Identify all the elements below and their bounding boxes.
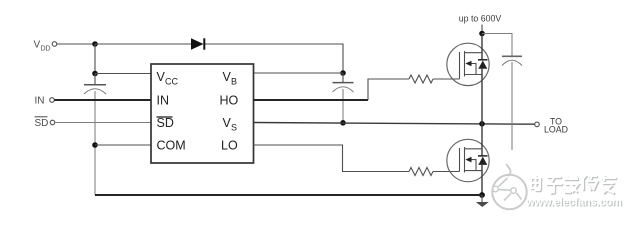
svg-text:LOAD: LOAD xyxy=(544,125,568,135)
resistor R2 low-side gate xyxy=(409,168,433,176)
wire HO pin to elbow xyxy=(254,99,369,101)
pin label VCC xyxy=(157,70,179,87)
wire COM junction to COM pin xyxy=(95,144,151,146)
pin label VS xyxy=(223,116,238,133)
watermark chinese text 电子发烧友 xyxy=(530,175,617,194)
svg-text:IN: IN xyxy=(157,94,170,108)
capacitor C2 bootstrap VB-VS xyxy=(333,73,354,123)
node ground junction xyxy=(479,192,485,198)
capacitor C3 HV bus xyxy=(502,56,522,150)
wire VB pin to junction xyxy=(254,72,344,74)
pin label VB xyxy=(223,70,238,87)
capacitor C1 VCC decoupling xyxy=(84,74,106,95)
transistor Q1 high-side MOSFET xyxy=(447,34,489,86)
label SD with overline xyxy=(35,117,49,129)
wire bottom rail COM to ground xyxy=(95,194,482,196)
op-amp U1 gate driver IC box xyxy=(151,64,254,163)
wire VS line IC to load xyxy=(254,123,535,125)
label VDD xyxy=(34,40,51,53)
wire SD to IC xyxy=(55,122,151,124)
node VS junction at bootstrap cap xyxy=(340,120,346,126)
svg-text:up to 600V: up to 600V xyxy=(459,14,502,24)
svg-text:CC: CC xyxy=(165,77,178,87)
ground xyxy=(476,195,489,207)
node COM junction xyxy=(92,142,98,148)
watermark url text xyxy=(525,197,623,210)
wire resistor to Q2 gate xyxy=(433,171,460,173)
svg-text:DD: DD xyxy=(41,46,51,53)
watermark logo circle (elecfans) xyxy=(492,164,526,209)
svg-text:B: B xyxy=(231,77,237,87)
wire HV rail down xyxy=(481,25,483,34)
pin label SD with overline xyxy=(157,116,174,130)
node VDD junction xyxy=(92,41,98,47)
wire LO pin to elbow xyxy=(254,145,410,172)
resistor R1 high-side gate xyxy=(409,75,433,83)
node VCC junction xyxy=(92,71,98,77)
svg-text:SD: SD xyxy=(35,118,49,129)
svg-text:COM: COM xyxy=(157,139,186,153)
terminal SD xyxy=(50,120,55,125)
terminal VDD xyxy=(52,42,57,47)
svg-text:IN: IN xyxy=(35,96,45,107)
svg-text:LO: LO xyxy=(221,139,238,153)
diode D1 bootstrap xyxy=(191,38,204,49)
label TO LOAD xyxy=(544,117,568,135)
wire IN to IC xyxy=(55,99,152,101)
svg-text:HO: HO xyxy=(220,94,239,108)
svg-text:S: S xyxy=(231,123,237,133)
wire HO elbow up and right to gate resistor xyxy=(368,79,409,100)
terminal IN xyxy=(50,98,55,103)
wire cap bottom down to COM node and ground rail xyxy=(94,91,96,195)
wire HV junction to bus cap xyxy=(482,34,512,57)
wire VCC junction to VCC pin xyxy=(95,73,151,75)
wire Q2 source to ground node xyxy=(481,182,483,195)
transistor Q2 low-side MOSFET xyxy=(447,139,489,181)
node VS at half-bridge midpoint xyxy=(479,121,485,127)
wire left vertical VDD to VCC xyxy=(94,44,96,74)
wire diode to VB elbow xyxy=(205,44,343,73)
wire VDD junction to diode xyxy=(95,43,191,45)
wire Q1 source to VS node xyxy=(481,86,483,140)
svg-text:V: V xyxy=(34,40,41,51)
wire VDD to junction xyxy=(57,43,95,45)
wire resistor to Q1 gate xyxy=(433,78,460,80)
svg-text:www.elecfans.com: www.elecfans.com xyxy=(525,197,622,209)
node HV junction xyxy=(479,31,485,37)
node VB junction xyxy=(340,70,346,76)
svg-text:SD: SD xyxy=(157,116,174,130)
terminal TO LOAD xyxy=(535,122,540,127)
